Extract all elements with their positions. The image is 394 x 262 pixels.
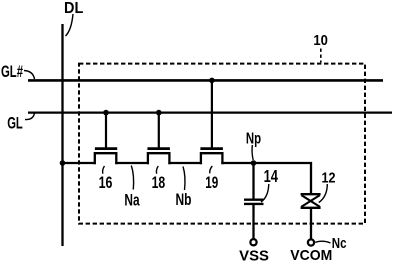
label 18 [152,166,166,192]
wire: T19 to node Np and over to element 12 [221,163,311,194]
wire: gate line GL# horizontal [28,79,383,82]
junction dot: DL and source wire [60,160,66,166]
label node Na [124,166,140,210]
svg-text:Np: Np [246,131,261,148]
junction dot: T16 gate on GL [103,110,109,116]
svg-text:DL: DL [64,0,83,17]
svg-text:Nb: Nb [176,190,192,209]
svg-text:VSS: VSS [239,248,269,262]
label GL# [1,63,35,81]
wire: gate line GL horizontal [28,111,392,113]
svg-text:14: 14 [264,166,279,186]
label 19 [205,166,218,192]
junction dot: T18 gate on GL [156,110,162,116]
wire: node Na segment between T16 and T18 [115,162,149,164]
label 10 [313,33,328,62]
svg-text:Nc: Nc [332,236,347,252]
svg-text:16: 16 [99,173,113,192]
svg-text:GL: GL [7,115,23,133]
svg-text:10: 10 [313,33,328,49]
wire: source segment DL to T16 [63,162,96,164]
terminal VCOM [290,239,332,262]
svg-text:Na: Na [124,191,140,210]
label DL [64,0,83,36]
label node Nb [176,167,192,209]
label 14 [261,166,278,202]
svg-text:GL#: GL# [1,63,23,81]
label 16 [99,166,113,192]
svg-text:18: 18 [152,173,166,192]
wire: data line DL vertical [61,24,63,246]
capacitor C 14 [244,163,264,239]
transistor 16 [95,113,117,165]
junction dot: node Np [251,160,257,166]
transistor 19 [200,80,223,164]
wire: node Nb segment between T18 and T19 [168,162,202,164]
svg-text:VCOM: VCOM [290,248,332,262]
junction dot: T19 gate on GL# [209,78,215,84]
terminal VSS [239,239,269,262]
liquid crystal element 12 [301,194,321,239]
label GL [7,113,34,132]
dashed pixel block boundary 10 [79,64,365,224]
label 12 [319,169,336,202]
label node Np [246,131,261,161]
label node Nc [315,236,346,252]
svg-text:12: 12 [322,169,336,186]
transistor 18 [147,113,170,165]
svg-text:19: 19 [205,174,218,192]
